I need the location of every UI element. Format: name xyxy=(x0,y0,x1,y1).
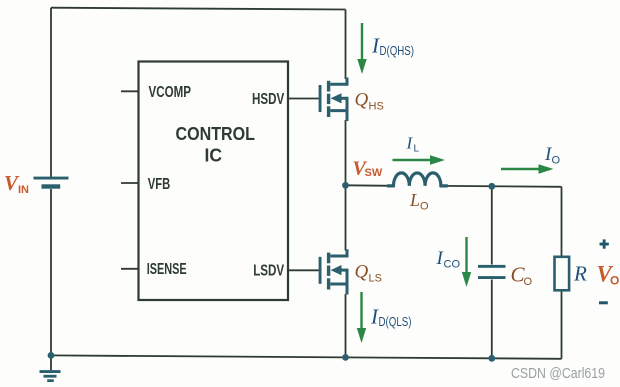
svg-text:IN: IN xyxy=(18,184,29,196)
svg-text:HS: HS xyxy=(369,101,384,113)
pin stub ISENSE xyxy=(121,268,139,270)
wire Co bottom vertical xyxy=(491,280,493,359)
pin stub VCOMP xyxy=(121,90,139,92)
wire top rail from Vin to QHS drain xyxy=(51,8,346,10)
label IL xyxy=(406,134,420,155)
svg-text:CSDN @Carl619: CSDN @Carl619 xyxy=(511,366,605,382)
label ICO xyxy=(436,248,461,271)
node QLS source junction dot xyxy=(342,354,349,361)
svg-text:L: L xyxy=(409,190,420,210)
node ground junction dot xyxy=(48,352,55,359)
wire left rail lower (battery to ground node) xyxy=(50,189,52,356)
label IO xyxy=(544,144,561,167)
label Vo with polarity xyxy=(597,239,620,304)
wire inductor to R corner xyxy=(441,185,562,188)
svg-text:D(QHS): D(QHS) xyxy=(380,43,415,58)
svg-text:O: O xyxy=(420,201,429,213)
svg-text:CO: CO xyxy=(444,259,461,271)
wire R bottom vertical xyxy=(561,290,563,359)
svg-text:L: L xyxy=(414,144,420,155)
transistor QHS xyxy=(319,78,347,122)
label Co xyxy=(511,263,533,289)
pin stub LSDV to QLS gate xyxy=(288,269,319,271)
wire R top vertical xyxy=(561,187,563,257)
label ID(QLS) xyxy=(370,305,412,329)
svg-text:LSDV: LSDV xyxy=(253,262,284,279)
current arrow IL xyxy=(393,155,446,164)
svg-text:IC: IC xyxy=(205,144,223,165)
wire Co top vertical xyxy=(491,186,493,264)
svg-text:O: O xyxy=(552,155,561,167)
current arrow ID(QHS) xyxy=(357,23,366,74)
svg-text:ISENSE: ISENSE xyxy=(147,261,187,278)
wire QHS drain vertical xyxy=(345,10,347,80)
svg-text:D(QLS): D(QLS) xyxy=(379,314,412,329)
label Vin xyxy=(4,171,29,196)
battery Vin xyxy=(34,177,69,189)
current arrow IO xyxy=(501,164,554,173)
label ID(QHS) xyxy=(371,34,414,58)
svg-text:O: O xyxy=(610,274,619,288)
node Vsw junction dot xyxy=(342,182,349,189)
svg-text:Q: Q xyxy=(355,90,369,111)
capacitor Co xyxy=(478,265,506,279)
wire QLS source to bottom rail xyxy=(345,294,347,357)
wire QHS source to Vsw node xyxy=(345,120,347,185)
svg-text:VFB: VFB xyxy=(148,176,171,193)
transistor QLS xyxy=(319,249,347,294)
inductor Lo xyxy=(388,173,447,186)
pin stub HSDV to QHS gate xyxy=(288,98,319,100)
control IC box U1 xyxy=(139,62,289,301)
pin stub VFB xyxy=(121,182,139,184)
svg-text:LS: LS xyxy=(369,273,382,285)
wire Vsw node to inductor xyxy=(346,184,395,187)
resistor R xyxy=(555,257,570,291)
label Vsw xyxy=(353,158,383,180)
node Co bottom junction dot xyxy=(488,355,495,362)
label QHS xyxy=(355,90,384,113)
label Lo xyxy=(409,190,429,213)
svg-text:SW: SW xyxy=(365,167,383,179)
wire QLS drain from Vsw node xyxy=(345,185,347,250)
current arrow ID(QLS) xyxy=(357,292,366,343)
label QLS xyxy=(355,262,382,285)
ground xyxy=(40,355,61,382)
svg-text:HSDV: HSDV xyxy=(252,91,285,108)
current arrow ICO xyxy=(462,237,471,287)
svg-text:Q: Q xyxy=(355,262,369,283)
wire left rail upper (Vin top to battery) xyxy=(50,8,52,177)
svg-text:R: R xyxy=(573,262,587,286)
wire bottom ground rail xyxy=(51,355,562,358)
svg-text:CONTROL: CONTROL xyxy=(176,123,256,144)
node Co top junction dot xyxy=(488,183,495,190)
svg-text:O: O xyxy=(524,276,533,288)
svg-text:VCOMP: VCOMP xyxy=(149,84,192,101)
